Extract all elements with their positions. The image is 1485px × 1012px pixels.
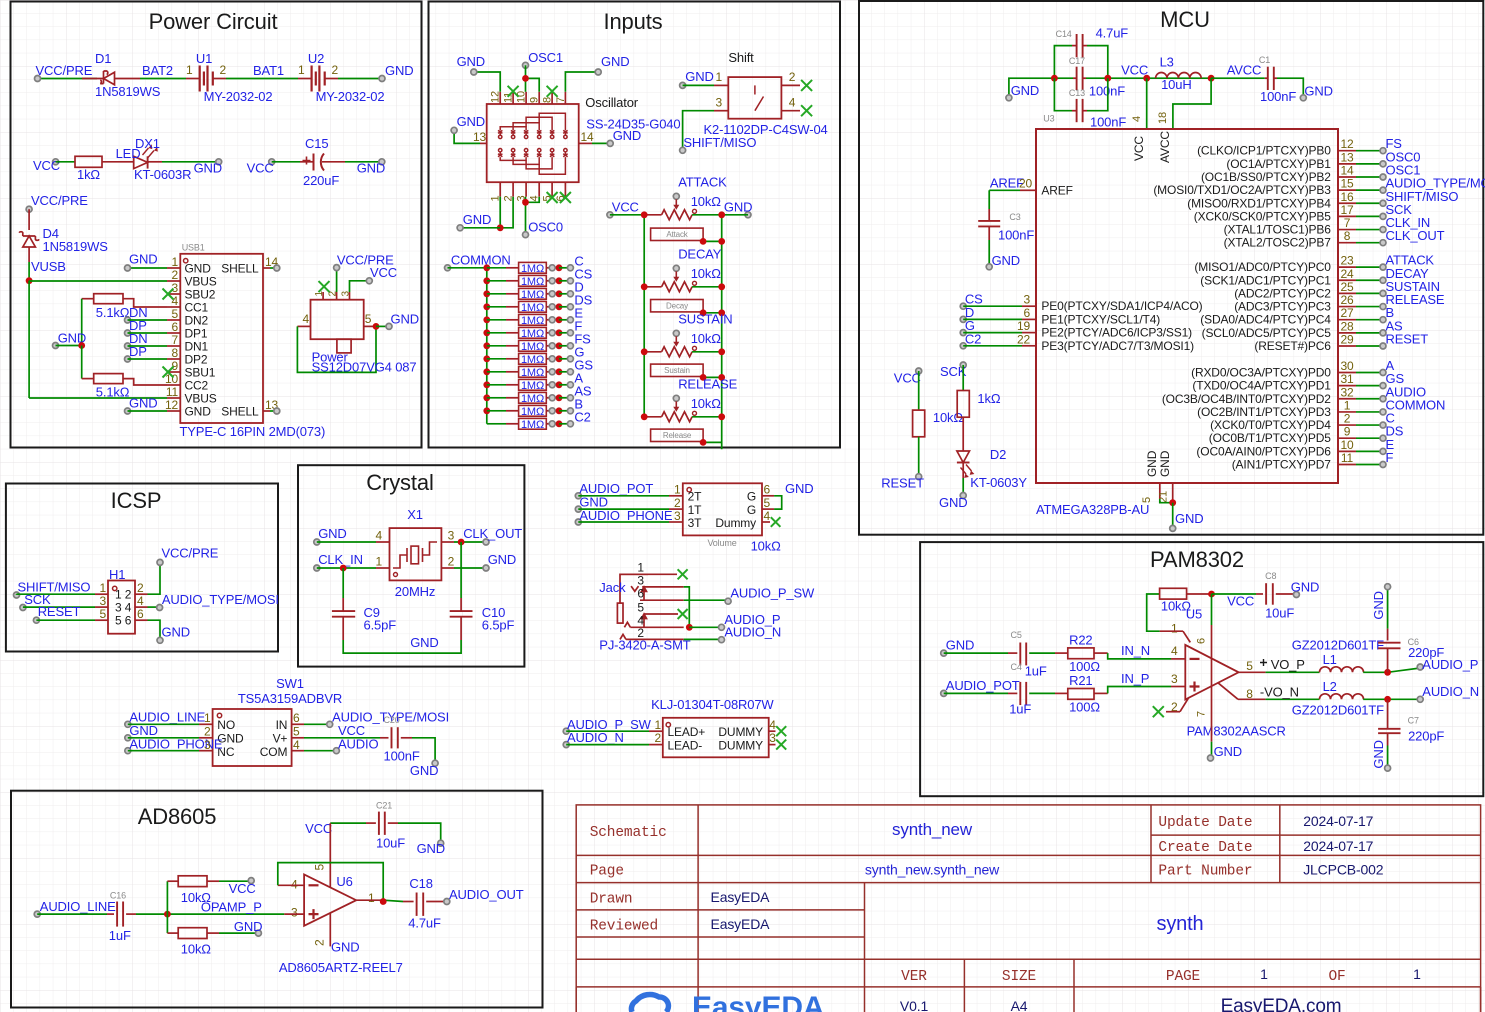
capacitor C15 220uF polarized <box>313 154 315 171</box>
svg-text:DX1: DX1 <box>135 136 160 151</box>
plus symbol inside U6 <box>309 909 319 919</box>
capacitor C10 6.5pF <box>450 610 473 612</box>
wire AVCC junction to MCU pin18 <box>1173 78 1211 129</box>
svg-text:C8: C8 <box>1265 571 1276 581</box>
svg-text:3: 3 <box>769 731 776 745</box>
svg-text:C20: C20 <box>384 715 400 725</box>
capacitor C3 100nF <box>978 220 1000 222</box>
wiper arrow of DECAY pot <box>675 271 677 280</box>
svg-text:VBUS: VBUS <box>185 275 217 289</box>
wire MCU pin5 to junction <box>1160 499 1173 503</box>
svg-text:GND: GND <box>613 128 641 143</box>
svg-text:OSC1: OSC1 <box>528 50 563 65</box>
capacitor C16 1uF <box>116 902 118 927</box>
resistor 1MOhm row F <box>519 327 547 338</box>
wire C20 to GND <box>401 737 412 739</box>
wire net VCC/PRE row1 <box>38 78 98 80</box>
node CS terminal at MCU <box>960 303 966 309</box>
wire to terminal A <box>559 384 570 386</box>
lead and pads of 1M row G <box>546 358 552 360</box>
wiper arrow of ATTACK pot <box>675 199 677 208</box>
pin lead 5 of USB1 <box>167 319 180 321</box>
node RESET terminal at H1 <box>33 617 39 623</box>
svg-text:Drawn: Drawn <box>590 892 633 908</box>
svg-text:GZ2012D601TF: GZ2012D601TF <box>1292 638 1384 653</box>
resistor 1MOhm row C2 <box>519 418 547 429</box>
wire AREF to C3 <box>988 190 990 209</box>
audio jack J1 PJ-3420-A-SMT symbol <box>617 574 648 639</box>
svg-text:(SDA0/ADC4/PTCY)PC4: (SDA0/ADC4/PTCY)PC4 <box>1200 313 1331 327</box>
wire rail to 1M resistor row C2 <box>487 423 506 425</box>
node AUDIO_POT terminal at Volume <box>575 493 581 499</box>
wire oscillator pin14 to GND <box>579 142 592 144</box>
svg-text:1MΩ: 1MΩ <box>521 354 544 366</box>
svg-text:15: 15 <box>1340 177 1354 191</box>
lead and pads of 1M row C <box>546 267 552 269</box>
pin lead 14 with wire to OSC1 <box>1338 176 1356 178</box>
capacitor C8 10uF <box>1265 583 1267 605</box>
node GND terminal top-left of oscillator <box>471 69 477 75</box>
node junction ladder row GS <box>483 368 490 375</box>
svg-text:AUDIO_N: AUDIO_N <box>724 625 781 640</box>
svg-text:10kΩ: 10kΩ <box>691 331 722 346</box>
node DS terminal <box>567 304 573 310</box>
wire RESET to H1 pin5 <box>36 619 95 621</box>
switch body Shift K2-1102DP-C4SW-04 <box>728 77 781 119</box>
pin-1 indicator circle of Volume <box>687 488 691 492</box>
svg-text:GND: GND <box>1291 580 1319 595</box>
svg-text:12: 12 <box>165 398 179 412</box>
node F terminal at MCU pin11 <box>1380 461 1386 467</box>
wire rail to 1M resistor row CS <box>487 280 506 282</box>
svg-text:DECAY: DECAY <box>678 246 722 261</box>
node junction output U6 <box>380 898 387 905</box>
node junction CLK_OUT <box>458 539 465 546</box>
no-connect X on oscillator pin8 <box>547 86 558 97</box>
svg-text:32: 32 <box>1340 385 1354 399</box>
svg-text:KT-0603R: KT-0603R <box>134 167 191 182</box>
svg-text:ATMEGA328PB-AU: ATMEGA328PB-AU <box>1036 502 1149 517</box>
wire resistor R-top to USB1 pin4 <box>123 299 167 307</box>
svg-text:28: 28 <box>1340 319 1354 333</box>
svg-text:CC2: CC2 <box>185 379 209 393</box>
capacitor C20 100nF at SW1 <box>391 727 393 748</box>
svg-text:C15: C15 <box>305 136 328 151</box>
svg-text:6: 6 <box>1196 638 1208 644</box>
svg-text:1uF: 1uF <box>109 928 131 943</box>
svg-text:(RESET#)PC6: (RESET#)PC6 <box>1254 339 1331 353</box>
svg-text:(ADC3/PTCY)PC3: (ADC3/PTCY)PC3 <box>1234 300 1331 314</box>
wire PAM pin5 VO_P to L1 <box>1239 671 1266 673</box>
wire junction to C7 to GND bottom <box>1387 699 1389 729</box>
svg-text:PAM8302: PAM8302 <box>1150 547 1244 572</box>
svg-text:EasyEDA: EasyEDA <box>711 889 771 905</box>
pin lead 29 with wire to RESET <box>1338 345 1356 347</box>
wire to terminal E <box>559 319 570 321</box>
wire to terminal GS <box>559 371 570 373</box>
wire U6 output pin1 to C18 <box>356 899 383 901</box>
wiper terminal of DECAY pot <box>673 265 679 271</box>
svg-text:2: 2 <box>789 70 796 84</box>
node junction OPAMP_P <box>164 911 171 918</box>
svg-text:4: 4 <box>1131 116 1143 122</box>
lead and pads of 1M row F <box>546 332 552 334</box>
capacitor C5 1uF <box>1019 643 1021 666</box>
node junction ladder row DS <box>483 303 490 310</box>
potentiometer DECAY 10kOhm <box>644 286 661 288</box>
no-connect X on jack pin5 <box>678 609 688 619</box>
wire L2 to AUDIO_N <box>1363 698 1387 700</box>
svg-text:GND: GND <box>1158 450 1172 477</box>
svg-text:SUSTAIN: SUSTAIN <box>678 311 732 326</box>
lead and pads of 1M row E <box>546 319 552 321</box>
node VCC terminal at switch <box>366 278 372 284</box>
svg-text:4: 4 <box>137 594 144 608</box>
no-connect X on Shift pin4 <box>801 105 812 116</box>
svg-text:(RXD0/OC3A/PTCXY)PD0: (RXD0/OC3A/PTCXY)PD0 <box>1191 366 1331 380</box>
wire power switch pin4 to pin5 loop <box>297 326 376 372</box>
svg-text:2: 2 <box>332 63 339 77</box>
pin-1 indicator circle of KLJ <box>666 723 670 727</box>
pin lead 28 with wire to AS <box>1338 332 1356 334</box>
svg-text:1MΩ: 1MΩ <box>521 302 544 314</box>
pin lead 2 of USB1 <box>167 280 180 282</box>
svg-text:U3: U3 <box>1043 114 1054 124</box>
pin lead 25 with wire to SUSTAIN <box>1338 292 1356 294</box>
node junction rail right <box>1104 75 1111 82</box>
svg-text:Dummy: Dummy <box>715 516 756 530</box>
wire VCC to C21 <box>330 822 366 824</box>
wire rail to 1M resistor row DS <box>487 306 506 308</box>
node GND terminal at C8 <box>1293 592 1299 598</box>
pin lead 4 of power switch <box>297 325 310 327</box>
svg-text:5: 5 <box>99 607 106 621</box>
svg-text:MCU: MCU <box>1160 7 1210 32</box>
pin lead 11 with wire to F <box>1338 463 1356 465</box>
svg-text:1MΩ: 1MΩ <box>521 419 544 431</box>
node C2 terminal at MCU <box>960 343 966 349</box>
svg-text:1MΩ: 1MΩ <box>521 263 544 275</box>
svg-text:Create Date: Create Date <box>1158 840 1252 856</box>
node GND terminal left of C17 <box>1006 95 1012 101</box>
section frame: Inputs <box>429 2 841 448</box>
pin lead 32 with wire to AUDIO <box>1338 398 1356 400</box>
resistor 1MOhm row FS <box>519 340 547 351</box>
pin lead 2 with wire to C <box>1338 424 1356 426</box>
svg-text:MY-2032-02: MY-2032-02 <box>316 89 385 104</box>
svg-text:1MΩ: 1MΩ <box>521 341 544 353</box>
node AUDIO_OUT terminal <box>444 899 450 905</box>
wire VCC to 10k resistor <box>918 371 920 410</box>
svg-text:1: 1 <box>204 711 211 725</box>
wire junction to 10k top <box>166 881 168 914</box>
svg-text:L1: L1 <box>1323 652 1337 667</box>
svg-text:1MΩ: 1MΩ <box>521 380 544 392</box>
svg-text:PE1(PTCXY/SCL1/T4): PE1(PTCXY/SCL1/T4) <box>1041 312 1160 326</box>
svg-text:6: 6 <box>171 320 178 334</box>
node junction right rail at button Sustain <box>718 374 725 381</box>
wire rail to 1M resistor row AS <box>487 397 506 399</box>
node GND terminal at SW1 <box>125 735 131 741</box>
svg-text:C17: C17 <box>1069 56 1085 66</box>
svg-text:220pF: 220pF <box>1408 729 1444 744</box>
svg-text:Decay: Decay <box>666 302 688 311</box>
svg-text:(XTAL1/TOSC1)PB6: (XTAL1/TOSC1)PB6 <box>1224 223 1332 237</box>
svg-text:AUDIO_N: AUDIO_N <box>567 730 624 745</box>
pin lead 24 with wire to DECAY <box>1338 279 1356 281</box>
pin stubs 1 2 3 of power switch <box>322 292 324 300</box>
wire button Release to right rail <box>703 441 722 443</box>
node junction GND bottom of MCU <box>1169 499 1176 506</box>
svg-text:AUDIO_TYPE/MOSI: AUDIO_TYPE/MOSI <box>162 592 279 607</box>
svg-text:PE3(PTCY/ADC7/T3/MOSI1): PE3(PTCY/ADC7/T3/MOSI1) <box>1041 339 1194 353</box>
svg-text:(MOSI0/TXD1/OC2A/PTCXY)PB3: (MOSI0/TXD1/OC2A/PTCXY)PB3 <box>1153 183 1331 197</box>
svg-text:1: 1 <box>171 255 178 269</box>
node junction VCC pin4 <box>1143 75 1150 82</box>
node GND terminal bottom of oscillator <box>457 225 463 231</box>
wire to terminal F <box>559 332 570 334</box>
svg-text:1MΩ: 1MΩ <box>521 393 544 405</box>
svg-text:4: 4 <box>375 529 382 543</box>
node AUDIO_P_SW terminal at KLJ <box>563 728 569 734</box>
svg-text:GND: GND <box>785 481 813 496</box>
svg-text:A4: A4 <box>1011 998 1028 1012</box>
svg-text:1uF: 1uF <box>1009 702 1031 717</box>
node junction right rail DECAY <box>718 283 725 290</box>
svg-text:7: 7 <box>1196 711 1208 717</box>
battery U2 lead pin1 <box>298 78 312 80</box>
svg-text:1: 1 <box>654 718 661 732</box>
svg-text:(TXD0/OC4A/PTCXY)PD1: (TXD0/OC4A/PTCXY)PD1 <box>1192 379 1331 393</box>
svg-text:DP: DP <box>129 344 147 359</box>
wire C6 to GND top <box>1387 587 1389 629</box>
node OSC0 terminal at MCU pin13 <box>1380 161 1386 167</box>
svg-text:DUMMY: DUMMY <box>718 725 763 739</box>
svg-text:5: 5 <box>764 496 771 510</box>
svg-text:EasyEDA.com: EasyEDA.com <box>1221 996 1342 1012</box>
pin lead 15 with wire to AUDIO_TYPE/MOS <box>1338 189 1356 191</box>
node GND terminal under D2 <box>960 493 966 499</box>
svg-text:8: 8 <box>542 97 554 103</box>
node AUDIO terminal at SW1 <box>333 748 339 754</box>
node AUDIO_POT terminal at C4 <box>941 690 947 696</box>
svg-text:D2: D2 <box>990 447 1006 462</box>
svg-text:C2: C2 <box>574 409 590 424</box>
node GND terminal right of C1 <box>1300 95 1306 101</box>
svg-text:4.7uF: 4.7uF <box>408 916 441 931</box>
svg-text:GND: GND <box>410 763 438 778</box>
button box Release <box>651 429 704 441</box>
svg-text:C2: C2 <box>965 331 981 346</box>
svg-text:C21: C21 <box>376 801 392 811</box>
capacitor C1 100nF <box>1267 67 1269 90</box>
svg-text:2: 2 <box>1344 412 1351 426</box>
svg-text:4: 4 <box>769 718 776 732</box>
svg-text:20: 20 <box>1019 177 1033 191</box>
wire DP to USB1 pin8 <box>128 358 168 360</box>
svg-text:Part Number: Part Number <box>1158 864 1252 880</box>
node GND terminal bottom of MCU <box>1170 525 1176 531</box>
node junction CLK_IN at C9 <box>340 565 347 572</box>
svg-text:GND: GND <box>724 200 752 215</box>
title block table grid <box>576 805 1480 1012</box>
amplifier U5 PAM8302AASCR triangle <box>1185 645 1238 700</box>
resistor 10kOhm bottom AD8605 <box>178 928 207 939</box>
svg-text:3: 3 <box>674 509 681 523</box>
wire C1 to GND right <box>1277 78 1303 98</box>
node GND terminal top-right of oscillator <box>595 69 601 75</box>
battery U1 lead pin2 <box>213 78 226 80</box>
wire OSC1 to oscillator pins10+9 <box>525 65 527 92</box>
svg-text:3: 3 <box>637 573 644 587</box>
svg-text:2: 2 <box>204 725 211 739</box>
svg-text:16: 16 <box>1340 190 1354 204</box>
node AUDIO_P terminal at jack <box>719 624 725 630</box>
buzzer KLJ body <box>663 718 769 758</box>
battery U1 MY-2032-02 <box>199 66 201 92</box>
svg-text:2: 2 <box>637 626 644 640</box>
svg-text:29: 29 <box>1340 333 1354 347</box>
svg-text:SHELL: SHELL <box>221 262 259 276</box>
svg-text:GND: GND <box>457 114 485 129</box>
svg-text:7: 7 <box>171 333 178 347</box>
node GND terminal at Volume <box>575 506 581 512</box>
svg-text:COM: COM <box>260 745 288 759</box>
svg-text:10uF: 10uF <box>1265 606 1294 621</box>
node F terminal <box>567 330 573 336</box>
capacitor C4 1uF <box>1019 682 1021 705</box>
svg-text:8: 8 <box>1344 229 1351 243</box>
connector USB1 TYPE-C body <box>180 254 263 423</box>
wire to terminal C <box>559 267 570 269</box>
svg-text:G: G <box>747 503 756 517</box>
resistor 5.1kOhm top <box>94 294 123 304</box>
svg-text:9: 9 <box>529 97 541 103</box>
pin lead 8 of USB1 <box>167 358 180 360</box>
wire GND to SW1 pin2 <box>128 737 199 739</box>
plus marker at VO_P <box>1260 659 1267 666</box>
node GND terminal at X1 pin2 <box>483 565 489 571</box>
wire LED to GND row2 <box>148 161 162 163</box>
svg-text:DP1: DP1 <box>185 327 208 341</box>
section frame: ICSP <box>6 484 278 652</box>
wire U6 pin2 GND vertical <box>329 913 331 946</box>
svg-text:1MΩ: 1MΩ <box>521 367 544 379</box>
svg-text:3 4: 3 4 <box>115 601 132 615</box>
resistor 1MOhm row GS <box>519 366 547 377</box>
wire AUDIO_LINE to C16 <box>37 913 107 915</box>
svg-text:U2: U2 <box>308 51 324 66</box>
inductor L3 10uH <box>1156 72 1202 78</box>
svg-text:2024-07-17: 2024-07-17 <box>1303 813 1373 829</box>
IC U3 ATMEGA328PB-AU body <box>1036 129 1338 483</box>
svg-text:(SCL0/ADC5/PTCY)PC5: (SCL0/ADC5/PTCY)PC5 <box>1202 326 1332 340</box>
svg-text:3T: 3T <box>688 516 703 530</box>
svg-text:SS12D07VG4 087: SS12D07VG4 087 <box>312 360 417 375</box>
LED DX1 KT-0603R <box>134 156 148 168</box>
svg-text:1MΩ: 1MΩ <box>521 328 544 340</box>
svg-text:(CLKO/ICP1/PTCXY)PB0: (CLKO/ICP1/PTCXY)PB0 <box>1197 144 1331 158</box>
svg-text:GND: GND <box>391 312 419 327</box>
wire C18 to AUDIO_OUT <box>426 901 447 903</box>
no-connect X on PAM pin2 <box>1153 706 1164 717</box>
svg-text:10kΩ: 10kΩ <box>181 942 212 957</box>
svg-text:F: F <box>1386 450 1394 465</box>
svg-text:25: 25 <box>1340 280 1354 294</box>
wire PAM pin8 VO_N to L2 <box>1218 683 1238 700</box>
svg-text:1: 1 <box>368 891 375 905</box>
svg-text:Jack: Jack <box>599 580 626 595</box>
node junction right rail SUSTAIN <box>718 348 725 355</box>
svg-text:4: 4 <box>302 312 309 326</box>
wire to terminal D <box>559 293 570 295</box>
resistor 1MOhm row C <box>519 262 547 273</box>
node junction left rail SUSTAIN <box>641 348 648 355</box>
svg-text:AUDIO_N: AUDIO_N <box>1422 684 1479 699</box>
resistor R22 100 ohm <box>1068 648 1094 659</box>
resistor 1kOhm vertical <box>957 391 969 418</box>
capacitor C7 220pF <box>1378 728 1400 730</box>
wire DN to USB1 pin7 <box>128 345 168 347</box>
wire PAM pin7 vertical to GND <box>1211 672 1213 742</box>
svg-text:Attack: Attack <box>666 230 688 239</box>
node COMMON terminal at MCU pin1 <box>1380 409 1386 415</box>
node SCK terminal at MCU pin17 <box>1380 213 1386 219</box>
svg-text:(MISO1/ADC0/PTCY)PC0: (MISO1/ADC0/PTCY)PC0 <box>1194 260 1331 274</box>
resistor 1MOhm row AS <box>519 392 547 403</box>
capacitor C18 4.7uF <box>416 893 418 916</box>
crystal X1 body <box>390 528 442 580</box>
svg-text:GND: GND <box>331 940 359 955</box>
wire button Sustain to right rail <box>703 376 722 378</box>
svg-text:CLK_OUT: CLK_OUT <box>463 526 522 541</box>
wire D2 to GND <box>962 463 964 479</box>
svg-text:L2: L2 <box>1323 679 1337 694</box>
wire jack pin4 to AUDIO_P <box>689 626 721 628</box>
svg-text:PAM8302AASCR: PAM8302AASCR <box>1187 724 1286 739</box>
svg-text:4: 4 <box>171 294 178 308</box>
wire to terminal DS <box>559 306 570 308</box>
pin lead 12 of USB1 <box>167 410 180 412</box>
svg-text:RESET: RESET <box>38 604 81 619</box>
node GND terminal pin12 <box>125 408 131 414</box>
svg-text:4: 4 <box>1171 644 1178 658</box>
node B terminal at MCU pin27 <box>1380 317 1386 323</box>
wire to terminal FS <box>559 345 570 347</box>
diode D4 1N5819WS <box>23 236 36 247</box>
resistor R21 100 ohm <box>1068 689 1094 700</box>
switch body SS12D07VG4 <box>311 300 364 340</box>
pin lead 10 with wire to E <box>1338 450 1356 452</box>
wire H1 pin6 to GND <box>135 619 148 621</box>
node DP terminal USB1 pin6 <box>125 330 131 336</box>
svg-text:V+: V+ <box>273 732 288 746</box>
node junction left rail DECAY <box>641 283 648 290</box>
svg-text:31: 31 <box>1340 372 1354 386</box>
svg-text:5: 5 <box>365 312 372 326</box>
section frame: AD8605 <box>11 791 543 1008</box>
svg-text:1kΩ: 1kΩ <box>977 391 1000 406</box>
wire U6 pin5 VCC vertical <box>329 823 331 887</box>
svg-text:KLJ-01304T-08R07W: KLJ-01304T-08R07W <box>651 697 774 712</box>
wire 10k to VCC junction <box>1187 593 1212 595</box>
svg-text:-VO_N: -VO_N <box>1260 685 1299 700</box>
svg-text:GND: GND <box>194 161 222 176</box>
node VCC terminal row2 <box>53 159 59 165</box>
wire oscillator pins1+2 to GND bottom <box>499 197 501 228</box>
node GND terminal pin1 <box>125 265 131 271</box>
svg-text:CLK_OUT: CLK_OUT <box>1386 228 1445 243</box>
